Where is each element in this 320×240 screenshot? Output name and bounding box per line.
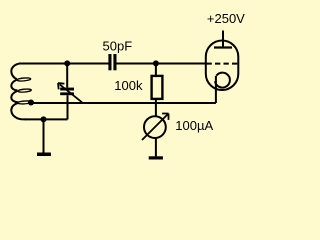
wire trimmer C2 down to bottom wire xyxy=(67,95,69,119)
inductor L1 coil xyxy=(11,64,26,120)
capacitor C1 50pF plates xyxy=(108,54,111,70)
svg-text:100µA: 100µA xyxy=(175,118,213,133)
wire cathode riser xyxy=(215,76,217,103)
tube V1 anode plate xyxy=(214,46,232,48)
trimmer capacitor C2 arrow xyxy=(60,84,83,102)
wire capacitor C1 to junction B xyxy=(117,63,156,65)
wire meter M1 to ground xyxy=(155,138,157,156)
wire junction A down to trimmer C2 xyxy=(66,64,68,88)
tube V1 cathode curl xyxy=(215,73,230,88)
svg-text:100k: 100k xyxy=(114,78,143,93)
resistor R1 100k body xyxy=(152,76,163,99)
wire resistor R1 to meter M1 xyxy=(155,99,157,116)
trimmer capacitor C2 plates xyxy=(60,88,74,91)
tube V1 grid (dashed) xyxy=(207,63,238,65)
wire anode lead xyxy=(222,31,224,47)
wire junction B down to resistor R1 xyxy=(155,64,157,76)
ground symbol left xyxy=(37,153,51,157)
svg-text:50pF: 50pF xyxy=(103,39,133,54)
wire junction B to tube grid xyxy=(156,63,206,65)
node B junction dot xyxy=(153,60,159,66)
tube V1 envelope xyxy=(206,41,239,91)
wire ground stem left xyxy=(43,119,45,152)
wire top left: coil top to junction A xyxy=(19,63,67,65)
ground symbol right xyxy=(149,156,163,159)
meter M1 needle arrow xyxy=(142,114,168,140)
node ground junction dot xyxy=(41,116,47,122)
meter M1 body xyxy=(144,116,166,138)
wire junction A to capacitor C1 left plate xyxy=(67,63,109,65)
node tap junction dot on coil xyxy=(28,100,34,106)
wire bottom: coil bottom to trimmer bottom xyxy=(25,118,68,120)
svg-text:+250V: +250V xyxy=(207,11,245,26)
wire tap to cathode corner xyxy=(32,102,216,104)
node A junction dot xyxy=(64,60,70,66)
